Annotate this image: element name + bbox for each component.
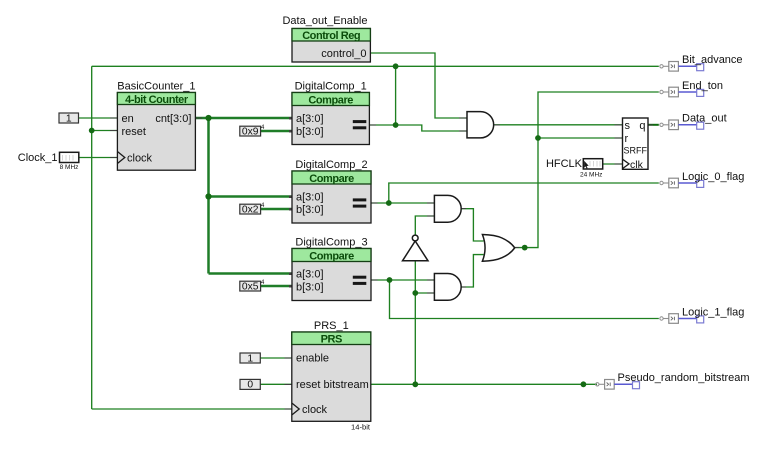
svg-text:End_ton: End_ton <box>682 80 723 92</box>
svg-text:DigitalComp_1: DigitalComp_1 <box>295 81 367 93</box>
svg-text:DigitalComp_2: DigitalComp_2 <box>295 159 367 171</box>
svg-text:reset bitstream: reset bitstream <box>296 379 369 391</box>
svg-text:14-bit: 14-bit <box>351 423 371 432</box>
svg-text:1: 1 <box>247 353 253 364</box>
svg-text:cnt[3:0]: cnt[3:0] <box>155 113 191 125</box>
svg-text:Compare: Compare <box>308 95 353 107</box>
svg-text:b[3:0]: b[3:0] <box>296 204 324 216</box>
svg-text:SRFF: SRFF <box>624 146 648 156</box>
svg-text:Data_out: Data_out <box>682 113 727 125</box>
svg-text:PRS_1: PRS_1 <box>314 320 349 332</box>
svg-text:r: r <box>625 133 629 145</box>
svg-text:0x5: 0x5 <box>242 281 259 292</box>
svg-text:Clock_1: Clock_1 <box>18 152 58 164</box>
svg-text:HFCLK: HFCLK <box>546 158 583 170</box>
svg-text:PRS: PRS <box>321 334 342 346</box>
svg-text:q: q <box>639 120 645 132</box>
svg-text:Pseudo_random_bitstream: Pseudo_random_bitstream <box>618 372 750 384</box>
svg-text:control_0: control_0 <box>321 48 366 60</box>
svg-text:Logic_0_flag: Logic_0_flag <box>682 171 744 183</box>
svg-text:clock: clock <box>302 404 328 416</box>
svg-text:s: s <box>625 120 631 132</box>
svg-text:8 MHz: 8 MHz <box>60 164 79 171</box>
svg-text:4-bit Counter: 4-bit Counter <box>125 94 189 106</box>
svg-text:Logic_1_flag: Logic_1_flag <box>682 306 744 318</box>
svg-text:Control Reg: Control Reg <box>302 30 360 42</box>
svg-text:Compare: Compare <box>309 173 354 185</box>
svg-text:DigitalComp_3: DigitalComp_3 <box>295 237 367 249</box>
svg-text:clock: clock <box>127 153 153 165</box>
svg-text:1: 1 <box>66 113 72 124</box>
svg-text:b[3:0]: b[3:0] <box>296 126 324 138</box>
svg-text:BasicCounter_1: BasicCounter_1 <box>117 81 195 93</box>
svg-text:a[3:0]: a[3:0] <box>296 269 324 281</box>
svg-text:enable: enable <box>296 353 329 365</box>
svg-text:0x9: 0x9 <box>242 126 259 137</box>
svg-text:0: 0 <box>247 380 253 391</box>
svg-text:en: en <box>122 113 134 125</box>
svg-text:0x2: 0x2 <box>242 204 259 215</box>
svg-text:a[3:0]: a[3:0] <box>296 113 324 125</box>
svg-text:a[3:0]: a[3:0] <box>296 192 324 204</box>
svg-text:clk: clk <box>630 159 644 171</box>
svg-text:24 MHz: 24 MHz <box>580 171 602 178</box>
svg-text:b[3:0]: b[3:0] <box>296 282 324 294</box>
svg-text:Bit_advance: Bit_advance <box>682 54 743 66</box>
svg-text:Data_out_Enable: Data_out_Enable <box>282 15 367 27</box>
svg-text:Compare: Compare <box>309 251 354 263</box>
svg-text:reset: reset <box>122 126 146 138</box>
